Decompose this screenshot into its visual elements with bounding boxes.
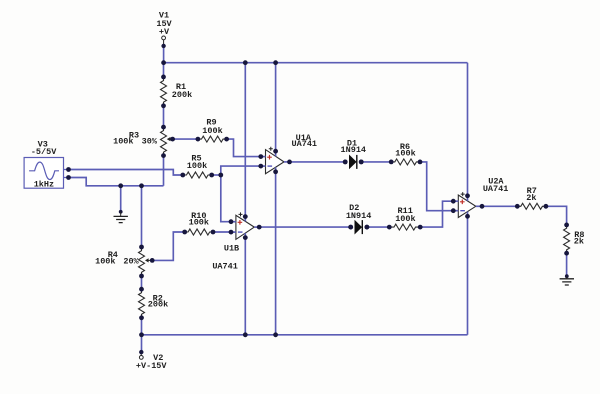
svg-text:30%: 30% [142, 136, 158, 146]
svg-text:100k: 100k [395, 214, 415, 224]
svg-text:U1B: U1B [224, 244, 239, 254]
svg-text:20%: 20% [123, 257, 139, 267]
svg-text:UA741: UA741 [212, 261, 238, 271]
svg-text:+V-15V: +V-15V [136, 361, 168, 371]
svg-text:100k: 100k [187, 161, 207, 171]
svg-text:100k: 100k [395, 148, 415, 158]
svg-text:100k: 100k [189, 218, 209, 228]
svg-text:+V: +V [159, 27, 170, 37]
svg-text:100k: 100k [202, 126, 222, 136]
svg-text:-5/5V: -5/5V [31, 147, 57, 157]
svg-text:200k: 200k [148, 300, 168, 310]
svg-text:1N914: 1N914 [346, 211, 372, 221]
svg-text:1N914: 1N914 [341, 145, 367, 155]
svg-text:UA741: UA741 [292, 139, 318, 149]
svg-text:2k: 2k [574, 237, 584, 247]
svg-text:200k: 200k [172, 90, 192, 100]
svg-text:UA741: UA741 [483, 184, 509, 194]
svg-text:2k: 2k [526, 193, 536, 203]
svg-text:100k: 100k [113, 136, 133, 146]
svg-text:100k: 100k [95, 257, 115, 267]
svg-text:1kHz: 1kHz [34, 180, 54, 190]
